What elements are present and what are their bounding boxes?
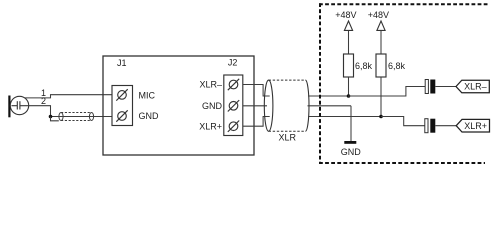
XLR connector barrel [264,80,309,131]
wire (XLR pin2 out) [308,105,352,107]
svg-text:XLR: XLR [279,132,297,142]
resistor R1 6,8k [344,54,354,77]
net tag XLR- output [456,80,489,93]
wire (XLR pin3 out) [308,116,381,118]
junction R2 to XLR+ wire [379,115,383,119]
svg-text:XLR+: XLR+ [464,121,487,131]
terminal block J1 [112,86,133,126]
capacitor C1 [425,80,428,94]
svg-text:6,8k: 6,8k [388,61,406,71]
wire (C1 to tag) [435,86,456,88]
wire (J2 pin1 to XLR plug) [243,85,270,97]
svg-text:XLR–: XLR– [464,82,487,92]
svg-text:MIC: MIC [139,91,156,101]
svg-text:J1: J1 [117,58,127,68]
net tag XLR+ output [456,119,489,132]
capacitor C2 [425,119,428,133]
microphone MIC1 [8,96,28,118]
wire (J2 pin3 to XLR plug) [243,117,270,127]
wire (XLR pin1 out) [308,95,348,97]
junction R1 to XLR- wire [347,94,351,98]
wire [380,30,382,54]
wire 2 (mic return to J1 GND) [29,106,113,117]
svg-text:6,8k: 6,8k [355,61,373,71]
wire (shield tie) [51,117,59,121]
wire [348,30,350,54]
svg-text:2: 2 [41,96,46,106]
resistor R2 6,8k [376,54,386,77]
svg-text:XLR–: XLR– [199,80,222,90]
wire (C2 to tag) [435,125,456,127]
svg-text:+48V: +48V [368,10,389,20]
svg-text:GND: GND [202,101,223,111]
junction (shield to pin 2) [49,115,53,119]
wire [348,77,350,96]
wire 1 (mic hot to J1 MIC) [24,95,112,98]
ground [344,141,356,144]
wire (GND drop) [350,106,352,141]
device box [103,56,254,155]
wire (J2 pin2 to XLR plug) [243,105,267,107]
wire [380,77,382,117]
svg-text:+48V: +48V [335,10,356,20]
wire (XLR+ to C2) [381,117,425,126]
terminal block J2 [224,75,243,136]
svg-text:GND: GND [139,111,160,121]
svg-text:GND: GND [341,147,362,157]
svg-text:J2: J2 [228,58,238,68]
phantom power unit dashed enclosure [319,3,489,164]
cable shield (screen) [59,113,94,121]
wire (XLR- to C1) [348,87,425,97]
svg-text:XLR+: XLR+ [199,121,222,131]
